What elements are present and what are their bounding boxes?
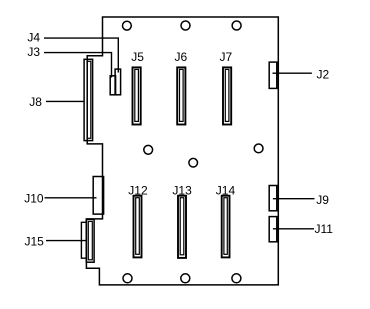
svg-text:J2: J2 [317, 68, 330, 82]
connector J2 [269, 62, 277, 88]
svg-text:J5: J5 [131, 50, 144, 64]
leader wire J10 [45, 197, 97, 199]
mounting hole middle-left [144, 145, 153, 154]
svg-text:J10: J10 [24, 191, 44, 205]
connector J15 [81, 219, 94, 262]
svg-text:J3: J3 [27, 45, 40, 59]
connector J11 [269, 217, 277, 242]
connector J14 [222, 196, 230, 258]
svg-text:J6: J6 [175, 50, 188, 64]
svg-text:J4: J4 [27, 31, 40, 45]
mounting hole bottom-right [232, 274, 241, 283]
connector J13 [178, 196, 186, 258]
connector J4 [115, 69, 121, 95]
board outline [86, 17, 278, 285]
mounting hole top-middle [181, 21, 190, 30]
svg-text:J13: J13 [172, 183, 192, 197]
mounting hole middle-right [254, 144, 263, 153]
svg-text:J9: J9 [316, 193, 329, 207]
mounting hole top-right [232, 21, 241, 30]
mounting hole middle-center [189, 158, 198, 167]
connector J10 [93, 177, 103, 215]
connector J5 [133, 67, 141, 124]
svg-text:J8: J8 [29, 95, 42, 109]
mounting hole bottom-middle [181, 274, 190, 283]
connector J3 [110, 76, 115, 95]
svg-text:J7: J7 [220, 50, 233, 64]
leader wire J15 [46, 240, 86, 242]
connector J7 [223, 67, 231, 124]
svg-text:J14: J14 [216, 183, 236, 197]
leader wire J11 [273, 228, 314, 230]
leader wire J8 [46, 100, 84, 102]
svg-text:J15: J15 [25, 235, 45, 249]
leader wire J9 [273, 198, 315, 200]
mounting hole top-left [123, 21, 132, 30]
connector J9 [269, 186, 277, 211]
svg-text:J11: J11 [315, 222, 334, 236]
connector J8 [84, 59, 93, 140]
leader wire J4 [44, 38, 118, 72]
connector J6 [177, 67, 185, 124]
leader wire J3 [44, 53, 112, 78]
svg-text:J12: J12 [128, 183, 148, 197]
leader wire J2 [273, 72, 312, 74]
mounting hole bottom-left [123, 274, 132, 283]
connector J12 [134, 196, 142, 258]
